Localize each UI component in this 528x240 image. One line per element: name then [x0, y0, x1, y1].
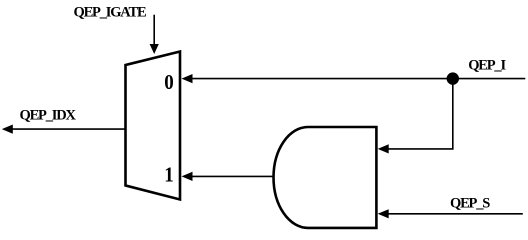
wire node to AND gate upper input	[386, 79, 453, 149]
wire QEP_IGATE select line	[153, 15, 155, 45]
wire QEP_IDX output	[11, 128, 125, 130]
svg-text:QEP_IDX: QEP_IDX	[20, 108, 77, 124]
arrow into AND gate lower input	[378, 209, 389, 218]
svg-text:QEP_S: QEP_S	[450, 195, 490, 211]
arrow into mux select input	[150, 44, 159, 54]
svg-text:1: 1	[164, 164, 173, 186]
wire AND gate output to mux input 1	[190, 175, 274, 177]
arrow into mux input 0	[182, 74, 193, 83]
junction node on QEP_I	[447, 72, 459, 84]
wire QEP_I	[190, 78, 525, 80]
arrow into mux input 1	[182, 172, 193, 181]
svg-text:0: 0	[164, 72, 173, 94]
svg-text:QEP_IGATE: QEP_IGATE	[74, 5, 146, 21]
wire QEP_S	[386, 213, 523, 215]
arrow into AND gate upper input	[378, 144, 389, 153]
arrow QEP_IDX pointing left	[2, 125, 13, 134]
mux U1	[126, 52, 181, 200]
svg-text:QEP_I: QEP_I	[468, 58, 506, 74]
AND gate U2	[274, 127, 377, 228]
